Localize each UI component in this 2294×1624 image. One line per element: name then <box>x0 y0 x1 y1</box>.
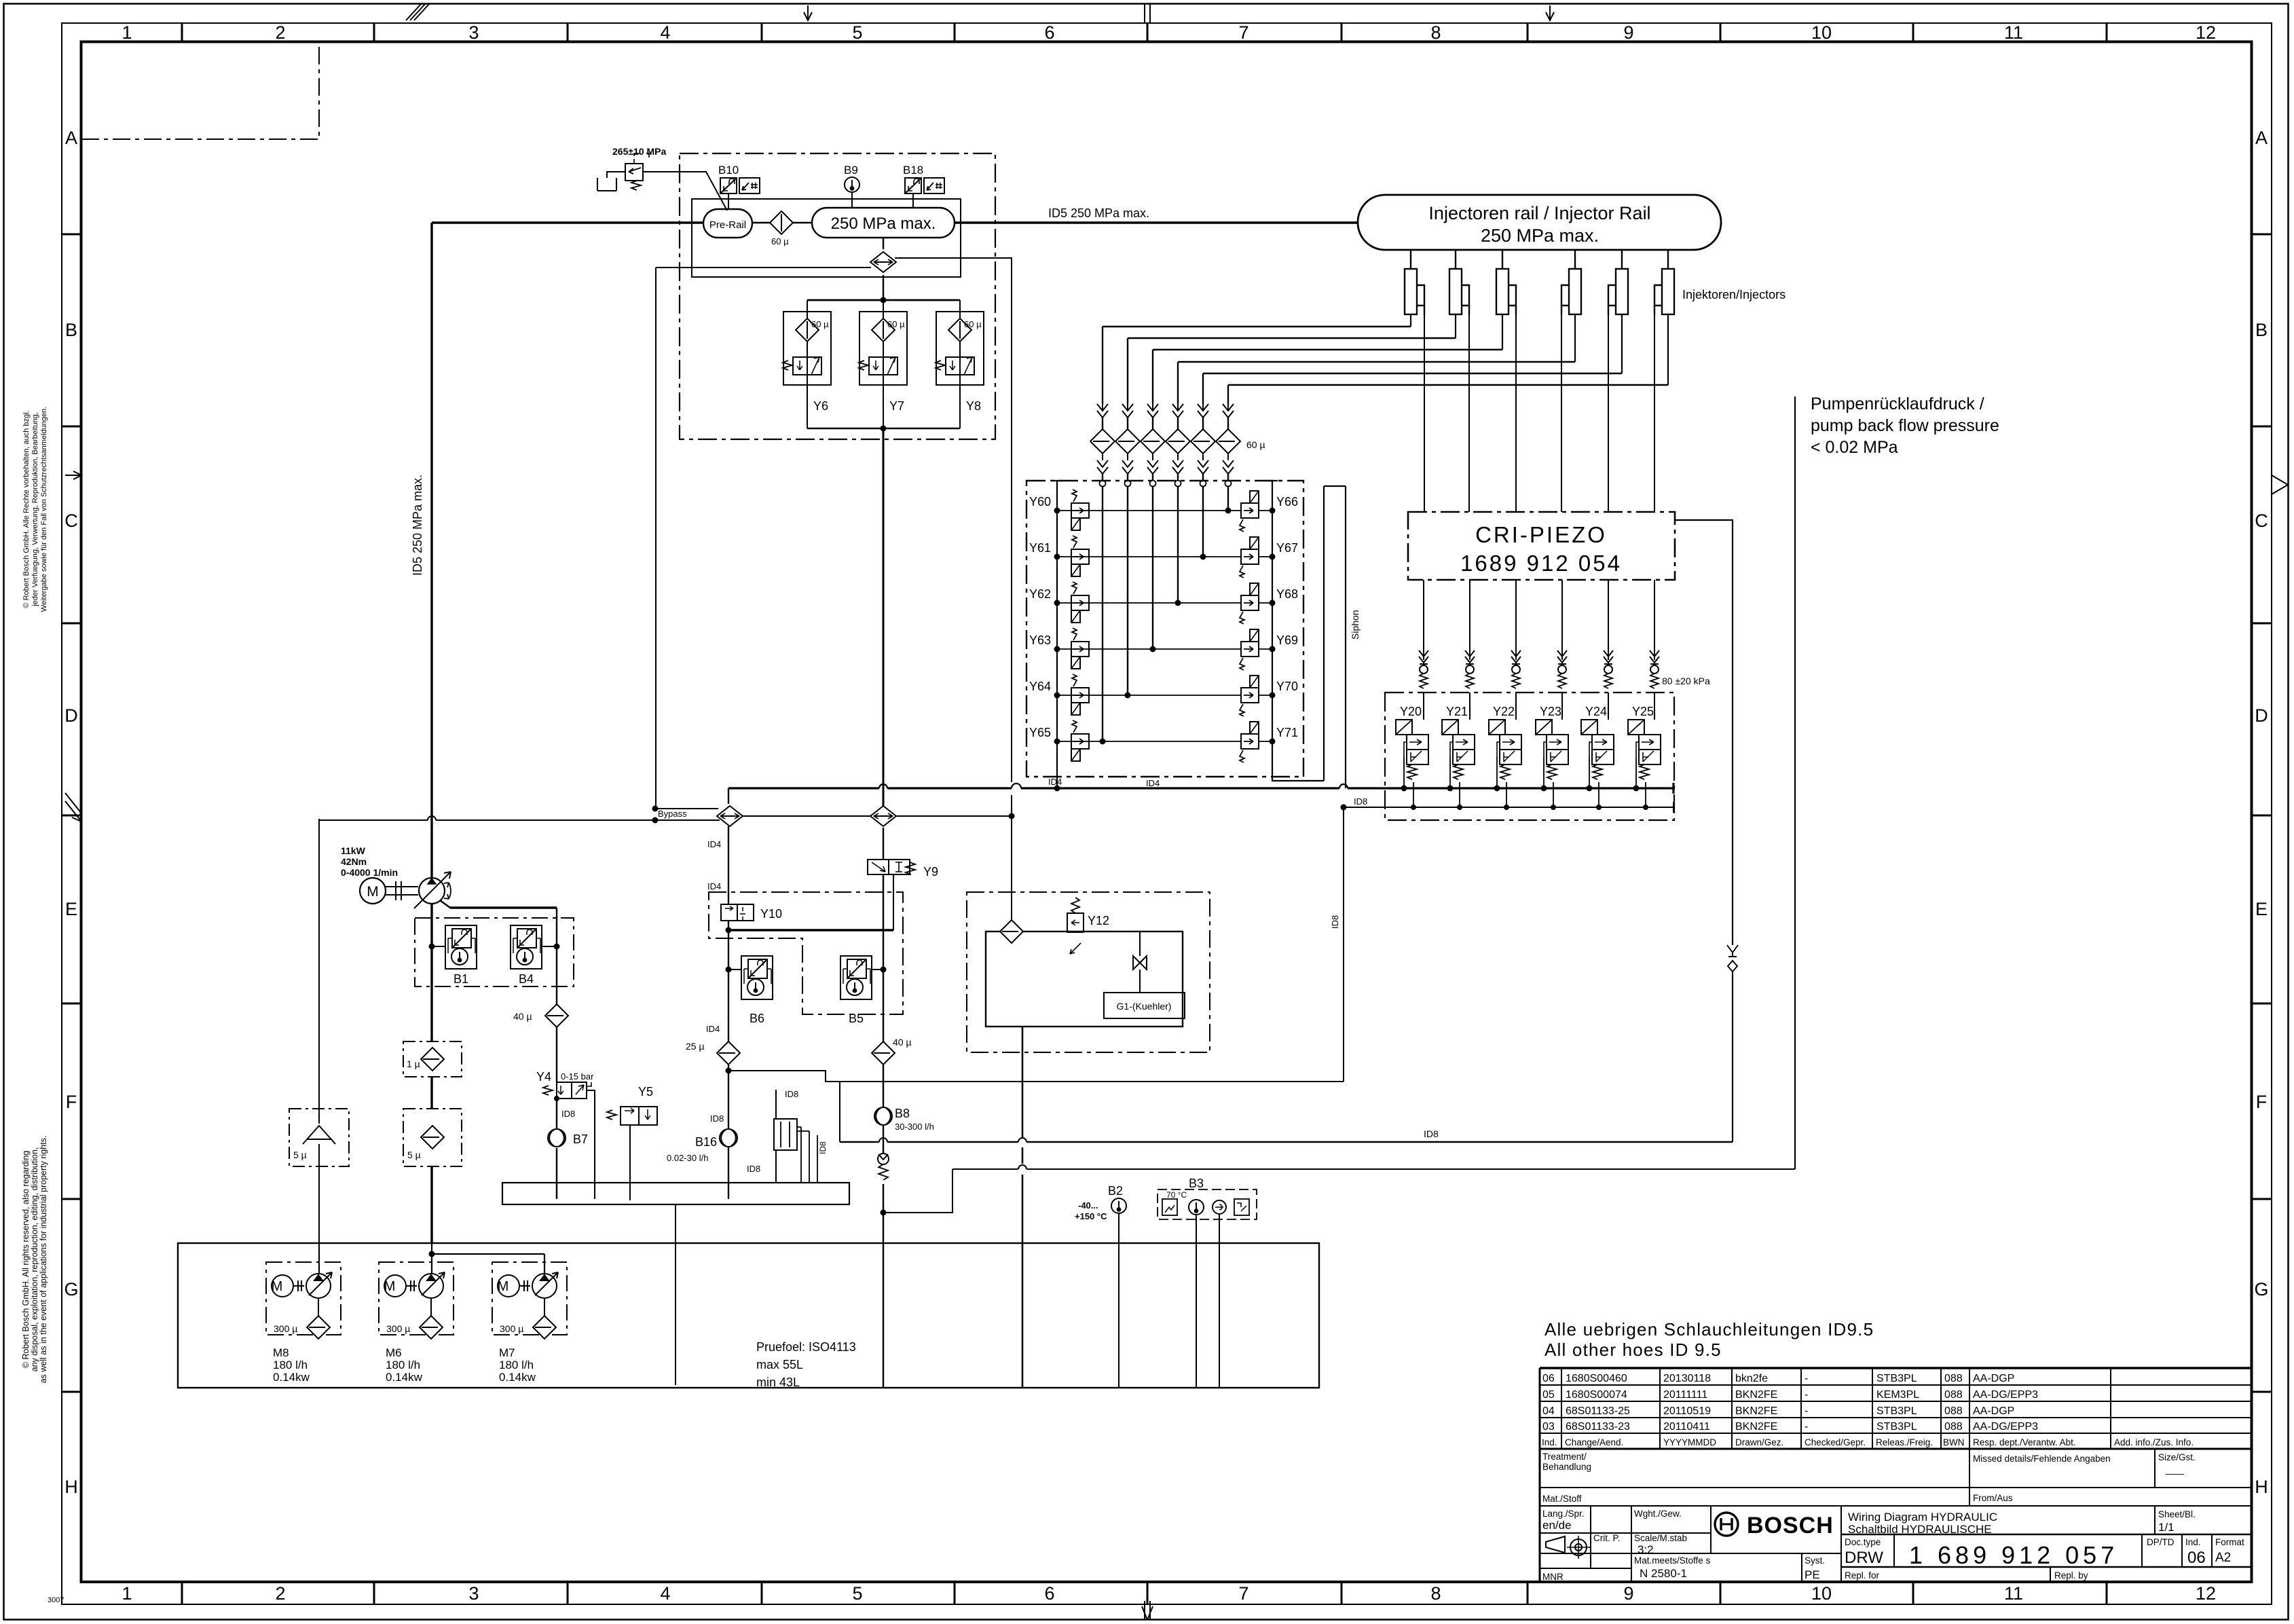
wire tank drain <box>675 1204 676 1385</box>
wire left bus of Y60 block <box>1052 481 1062 788</box>
svg-text:8: 8 <box>1430 22 1441 43</box>
svg-text:-: - <box>1805 1373 1808 1384</box>
injector 3 <box>1496 250 1516 315</box>
svg-text:ID8: ID8 <box>1354 796 1367 807</box>
wire Y7 column down <box>883 428 885 806</box>
svg-text:Pruefoel: ISO4113: Pruefoel: ISO4113 <box>756 1340 856 1354</box>
motor-pump M6 <box>384 1272 445 1298</box>
wire ID5 vertical <box>430 223 432 1243</box>
svg-text:Lang./Spr.: Lang./Spr. <box>1542 1509 1585 1519</box>
svg-text:Repl. by: Repl. by <box>2054 1570 2088 1581</box>
check+spring column no.2 <box>1465 650 1475 688</box>
svg-text:25 µ: 25 µ <box>686 1041 705 1052</box>
svg-text:300 µ: 300 µ <box>274 1323 297 1334</box>
svg-text:180 l/h: 180 l/h <box>273 1359 308 1371</box>
svg-text:Sheet/Bl.: Sheet/Bl. <box>2158 1509 2196 1519</box>
svg-text:Pre-Rail: Pre-Rail <box>709 219 746 231</box>
svg-text:60 µ: 60 µ <box>771 236 789 246</box>
wire pump outlet header <box>450 906 557 908</box>
1979 down line <box>1343 807 1344 1082</box>
injector rail node <box>1358 195 1721 250</box>
rail 250 MPa max node <box>812 208 955 238</box>
rail module dashed enclosure <box>680 153 995 439</box>
pressure relief valve 265±10 MPa <box>597 153 727 210</box>
svg-text:Y6: Y6 <box>813 399 828 413</box>
valve Y66 <box>1240 491 1259 532</box>
svg-text:jeder Verfuegung, Verwertung,: jeder Verfuegung, Verwertung, Reprodukti… <box>31 412 39 607</box>
svg-text:CRI-PIEZO: CRI-PIEZO <box>1475 522 1607 547</box>
filter column 60µ no.2 <box>1115 404 1140 489</box>
svg-text:Y23: Y23 <box>1540 705 1561 718</box>
svg-text:Y9: Y9 <box>923 865 938 879</box>
svg-text:5 µ: 5 µ <box>293 1149 307 1160</box>
svg-text:40 µ: 40 µ <box>513 1011 532 1022</box>
svg-text:Y21: Y21 <box>1446 705 1468 718</box>
svg-text:ID8: ID8 <box>1424 1128 1439 1139</box>
svg-text:——: —— <box>2166 1469 2185 1479</box>
check+spring column no.6 <box>1650 650 1659 688</box>
svg-text:Missed details/Fehlende Angabe: Missed details/Fehlende Angaben <box>1973 1454 2111 1464</box>
svg-text:Mat./Stoff: Mat./Stoff <box>1542 1494 1582 1504</box>
svg-text:20110519: 20110519 <box>1663 1405 1711 1417</box>
svg-text:4: 4 <box>660 22 670 43</box>
wire ID8 bus B left end <box>883 1169 952 1213</box>
svg-text:05: 05 <box>1542 1389 1555 1401</box>
heat exchanger <box>774 1119 797 1150</box>
verticals feeder to filter row <box>1103 327 1228 404</box>
svg-text:BKN2FE: BKN2FE <box>1735 1405 1777 1417</box>
wire Y6-Y8 supply header <box>807 297 960 303</box>
svg-text:YYYYMMDD: YYYYMMDD <box>1663 1437 1716 1447</box>
svg-text:Y66: Y66 <box>1276 495 1298 509</box>
svg-text:as well as in the event of app: as well as in the event of applications … <box>39 1136 48 1384</box>
svg-text:Ind.: Ind. <box>2185 1537 2201 1547</box>
svg-text:M8: M8 <box>273 1346 289 1359</box>
rail module inner box <box>692 199 961 277</box>
svg-text:68S01133-23: 68S01133-23 <box>1566 1421 1630 1433</box>
injector 1 <box>1405 250 1424 315</box>
svg-text:C: C <box>2255 511 2268 531</box>
svg-text:60 µ: 60 µ <box>964 319 982 329</box>
svg-text:9: 9 <box>1623 1583 1633 1604</box>
svg-text:3: 3 <box>468 22 479 43</box>
svg-text:-: - <box>1805 1389 1808 1401</box>
filter at G1 inlet <box>1000 920 1023 943</box>
sensor B1 <box>445 925 477 969</box>
svg-text:3:2: 3:2 <box>1638 1543 1654 1556</box>
injector 6 <box>1654 250 1674 315</box>
siphon tube <box>1324 486 1346 788</box>
wire G1 drain down <box>1022 1027 1024 1388</box>
svg-text:Repl. for: Repl. for <box>1845 1570 1880 1581</box>
valve Y24 <box>1581 720 1614 779</box>
svg-text:Wiring Diagram HYDRAULIC: Wiring Diagram HYDRAULIC <box>1848 1511 1997 1524</box>
svg-text:Ind.: Ind. <box>1542 1437 1557 1447</box>
check+spring column no.1 <box>1419 650 1428 688</box>
wire return line to siphon drain <box>726 1068 732 1074</box>
motor-pump M8 <box>272 1272 332 1298</box>
check valve with spring under B8 <box>878 1154 889 1164</box>
svg-text:-40...: -40... <box>1078 1200 1098 1211</box>
svg-text:A: A <box>2255 128 2268 148</box>
test bench tank room box <box>178 1243 1319 1388</box>
svg-text:5: 5 <box>852 1583 862 1604</box>
Y10/B5 dashed enclosure <box>709 892 903 1014</box>
Pre-Rail node <box>703 209 752 238</box>
svg-text:Y68: Y68 <box>1276 587 1298 601</box>
svg-text:Y62: Y62 <box>1029 587 1051 601</box>
svg-text:0-15 bar: 0-15 bar <box>561 1071 594 1082</box>
svg-text:Mat.meets/Stoffe s: Mat.meets/Stoffe s <box>1634 1555 1711 1566</box>
valve Y21 <box>1442 720 1475 779</box>
pump main variable <box>419 878 445 904</box>
svg-text:ID5 250 MPa max.: ID5 250 MPa max. <box>411 475 424 576</box>
svg-text:180 l/h: 180 l/h <box>386 1359 420 1371</box>
svg-text:Wght./Gew.: Wght./Gew. <box>1634 1509 1682 1519</box>
injector 5 <box>1608 250 1628 315</box>
G1-(Kuehler) label box <box>1104 993 1185 1018</box>
svg-text:Y65: Y65 <box>1029 726 1051 739</box>
svg-text:0.14kw: 0.14kw <box>386 1371 423 1384</box>
svg-text:60 µ: 60 µ <box>887 319 905 329</box>
svg-text:Syst.: Syst. <box>1805 1555 1825 1566</box>
copyright sideways text block 1 <box>21 407 48 1384</box>
wire B4 column down <box>556 908 557 1199</box>
svg-text:3: 3 <box>468 1583 479 1604</box>
label pump back flow pressure <box>1811 394 1999 457</box>
svg-text:60 µ: 60 µ <box>1246 439 1265 450</box>
valve Y20 <box>1396 720 1428 779</box>
svg-text:Y10: Y10 <box>760 907 782 921</box>
filter 25µ <box>717 1041 740 1065</box>
svg-text:STB3PL: STB3PL <box>1876 1421 1917 1433</box>
filter 40µ left <box>545 1004 568 1027</box>
svg-text:-: - <box>1805 1405 1808 1417</box>
svg-text:BOSCH: BOSCH <box>1747 1513 1834 1538</box>
svg-text:BKN2FE: BKN2FE <box>1735 1389 1777 1401</box>
motor M main drive <box>360 878 386 904</box>
wire rail module internal left <box>656 267 871 268</box>
label motor rating <box>341 845 398 878</box>
valve Y22 <box>1489 720 1521 779</box>
svg-text:03: 03 <box>1542 1421 1555 1433</box>
check valve under rail <box>883 238 884 300</box>
check valve bypass no.2 <box>870 806 896 826</box>
svg-text:1: 1 <box>122 22 132 43</box>
valve Y62 <box>1071 582 1089 623</box>
svg-text:20110411: 20110411 <box>1663 1421 1710 1433</box>
svg-text:AA-DG/EPP3: AA-DG/EPP3 <box>1973 1421 2038 1433</box>
svg-text:1 µ: 1 µ <box>407 1058 420 1069</box>
svg-text:N 2580-1: N 2580-1 <box>1640 1567 1687 1580</box>
svg-text:Siphon: Siphon <box>1350 610 1361 640</box>
svg-text:E: E <box>65 899 77 919</box>
svg-text:250 MPa max.: 250 MPa max. <box>831 215 936 233</box>
sensor B4 <box>511 925 542 969</box>
breather 5µ dashed box <box>289 1109 349 1166</box>
wire ID8 bus B <box>952 1168 1795 1170</box>
wires injectors to CRI-PIEZO <box>1424 315 1654 512</box>
wire ID8 bus <box>1344 802 1673 813</box>
svg-text:06: 06 <box>2187 1549 2206 1567</box>
svg-text:B4: B4 <box>519 972 534 986</box>
svg-text:B5: B5 <box>849 1012 864 1025</box>
svg-text:AA-DGP: AA-DGP <box>1973 1405 2014 1417</box>
svg-text:B3: B3 <box>1189 1177 1204 1190</box>
svg-text:B18: B18 <box>903 164 923 177</box>
svg-text:Releas./Freig.: Releas./Freig. <box>1876 1437 1933 1447</box>
wire Y6-Y8 drain header <box>807 428 960 429</box>
motor-pump M7 <box>498 1272 558 1298</box>
wires Y60-Y65 row lines <box>1057 511 1272 741</box>
wire ID4 column via Y10 <box>728 826 729 1199</box>
svg-text:any disposal, exploitation, re: any disposal, exploitation, reproduction… <box>30 1147 39 1372</box>
svg-text:© Robert Bosch GmbH. All right: © Robert Bosch GmbH. All rights reserved… <box>21 1151 31 1369</box>
svg-text:ID8: ID8 <box>818 1141 828 1154</box>
wires CRI-PIEZO leak-off columns <box>1424 580 1654 650</box>
svg-text:9: 9 <box>1623 22 1633 43</box>
svg-text:min 43L: min 43L <box>756 1376 800 1389</box>
svg-text:ID4: ID4 <box>1146 778 1160 788</box>
wire B6-B5 header <box>728 929 893 931</box>
svg-text:Y4: Y4 <box>536 1070 551 1084</box>
svg-text:Scale/M.stab: Scale/M.stab <box>1634 1533 1687 1543</box>
svg-text:68S01133-25: 68S01133-25 <box>1566 1405 1630 1417</box>
svg-text:ID8: ID8 <box>710 1113 724 1124</box>
svg-text:11: 11 <box>2004 1583 2023 1604</box>
svg-text:B9: B9 <box>844 164 858 177</box>
svg-text:42Nm: 42Nm <box>341 856 367 867</box>
svg-text:Size/Gst.: Size/Gst. <box>2158 1452 2196 1462</box>
svg-text:5 µ: 5 µ <box>407 1149 421 1160</box>
svg-text:Y7: Y7 <box>889 399 904 413</box>
svg-text:Y70: Y70 <box>1276 680 1298 693</box>
svg-text:Weitergabe sowie für den Fall: Weitergabe sowie für den Fall von Schutz… <box>40 407 48 612</box>
BOSCH logo <box>1715 1513 1834 1538</box>
svg-text:ID8: ID8 <box>747 1164 760 1174</box>
svg-text:B8: B8 <box>895 1107 910 1120</box>
Wiring diagram title <box>1848 1511 1997 1536</box>
svg-text:bkn2fe: bkn2fe <box>1735 1373 1768 1384</box>
drains to buses <box>1404 757 1646 807</box>
svg-text:A2: A2 <box>2215 1551 2231 1565</box>
svg-text:12: 12 <box>2196 22 2216 43</box>
svg-text:M: M <box>367 884 379 900</box>
wire CRI-PIEZO return with check valve <box>1675 520 1733 1142</box>
flow meter B7 <box>548 1129 566 1147</box>
svg-text:ID8: ID8 <box>561 1109 575 1119</box>
svg-text:1/1: 1/1 <box>2158 1521 2175 1534</box>
svg-text:1: 1 <box>122 1583 132 1604</box>
svg-text:D: D <box>64 705 78 726</box>
CRI-PIEZO unit box <box>1408 512 1675 580</box>
svg-text:20111111: 20111111 <box>1663 1389 1707 1401</box>
svg-text:A: A <box>65 128 77 148</box>
svg-text:Y67: Y67 <box>1276 541 1298 555</box>
svg-text:Doc.type: Doc.type <box>1845 1537 1881 1547</box>
svg-text:Add. info./Zus. Info.: Add. info./Zus. Info. <box>2114 1437 2194 1447</box>
svg-text:ID5 250 MPa max.: ID5 250 MPa max. <box>1048 206 1149 220</box>
svg-text:2: 2 <box>275 22 285 43</box>
svg-text:Crit. P.: Crit. P. <box>1593 1533 1621 1543</box>
valve Y67 <box>1240 537 1259 578</box>
svg-text:ID8: ID8 <box>785 1089 798 1099</box>
wire rail module to bypass vertical <box>895 258 1012 782</box>
svg-text:ID4: ID4 <box>707 881 721 891</box>
check valve bypass no.1 <box>717 806 743 826</box>
shutoff valve at G1 <box>1139 932 1141 993</box>
valve Y70 <box>1240 676 1259 716</box>
filter 300µ M7 <box>533 1316 556 1339</box>
wire ID4 main bus <box>728 783 1673 794</box>
valve Y60 <box>1071 490 1089 530</box>
G1 cooler inner box <box>986 931 1183 1027</box>
svg-text:G: G <box>64 1279 78 1299</box>
verticals continuing into block <box>1103 489 1228 741</box>
solenoid valves Y6 Y7 Y8 <box>783 357 974 375</box>
filter 5µ dashed box <box>403 1109 462 1166</box>
filter column 60µ no.5 <box>1191 404 1215 489</box>
sensor B6 <box>741 956 773 999</box>
svg-text:1680S00074: 1680S00074 <box>1566 1389 1627 1401</box>
svg-text:Y12: Y12 <box>1088 914 1109 927</box>
check+spring column no.3 <box>1511 650 1521 688</box>
svg-text:H: H <box>64 1477 78 1497</box>
filter column 60µ no.3 <box>1141 404 1165 489</box>
G1 cooler dashed enclosure <box>967 892 1210 1052</box>
sensor B5 <box>840 956 872 999</box>
injector 2 <box>1449 250 1469 315</box>
valve Y68 <box>1240 583 1259 624</box>
wire right bus of Y60 block <box>1267 481 1324 781</box>
svg-text:1680S00460: 1680S00460 <box>1566 1373 1627 1384</box>
svg-text:B: B <box>65 320 77 340</box>
svg-text:300 µ: 300 µ <box>500 1323 523 1334</box>
svg-text:12: 12 <box>2196 1583 2216 1604</box>
oil tank manifold <box>502 1183 849 1204</box>
svg-text:AA-DGP: AA-DGP <box>1973 1373 2014 1384</box>
valve Y64 <box>1071 674 1089 715</box>
svg-text:F: F <box>2256 1092 2268 1112</box>
svg-text:10: 10 <box>1811 22 1832 43</box>
svg-text:M: M <box>384 1279 396 1294</box>
svg-text:G1-(Kuehler): G1-(Kuehler) <box>1117 1001 1172 1012</box>
filter column 60µ no.4 <box>1166 404 1190 489</box>
svg-text:F: F <box>66 1092 77 1112</box>
svg-text:© Robert Bosch GmbH. Alle Rech: © Robert Bosch GmbH. Alle Rechte vorbeha… <box>22 410 31 608</box>
svg-text:PE: PE <box>1805 1568 1820 1581</box>
svg-text:Injektoren/Injectors: Injektoren/Injectors <box>1682 288 1786 301</box>
middle cells <box>1542 1452 2196 1504</box>
wires injector drops <box>1411 314 1668 385</box>
svg-text:20130118: 20130118 <box>1663 1373 1711 1384</box>
flow meter B8 <box>874 1107 892 1125</box>
svg-text:088: 088 <box>1944 1389 1963 1401</box>
svg-text:ID4: ID4 <box>706 1024 720 1034</box>
svg-text:Drawn/Gez.: Drawn/Gez. <box>1735 1437 1783 1447</box>
svg-text:E: E <box>2255 899 2268 919</box>
svg-text:G: G <box>2254 1279 2268 1299</box>
svg-text:B7: B7 <box>573 1132 588 1146</box>
valve Y61 <box>1071 536 1089 576</box>
filter 300µ M6 <box>420 1316 443 1339</box>
svg-text:300 µ: 300 µ <box>386 1323 410 1334</box>
note all other hoses ID9.5 <box>1544 1319 1874 1360</box>
check+spring column no.5 <box>1604 650 1613 688</box>
filter column 60µ no.1 <box>1090 404 1115 489</box>
svg-text:en/de: en/de <box>1542 1519 1572 1532</box>
svg-text:40 µ: 40 µ <box>893 1037 912 1048</box>
svg-text:0.02-30 l/h: 0.02-30 l/h <box>667 1153 708 1163</box>
svg-text:4: 4 <box>660 1583 670 1604</box>
check+spring column no.4 <box>1557 650 1567 688</box>
first-angle projection symbol <box>1546 1536 1590 1559</box>
svg-text:Resp. dept./Verantw. Abt.: Resp. dept./Verantw. Abt. <box>1973 1437 2076 1447</box>
svg-text:Injectoren rail / Injector Rai: Injectoren rail / Injector Rail <box>1428 203 1650 223</box>
svg-text:60 µ: 60 µ <box>811 319 829 329</box>
svg-text:KEM3PL: KEM3PL <box>1876 1389 1919 1401</box>
svg-text:DRW: DRW <box>1845 1549 1883 1567</box>
svg-text:250 MPa max.: 250 MPa max. <box>1481 225 1599 246</box>
Y20-Y25 block dashed enclosure <box>1385 693 1674 820</box>
svg-text:M: M <box>272 1279 283 1294</box>
svg-text:Pumpenrücklaufdruck /: Pumpenrücklaufdruck / <box>1811 394 1984 413</box>
svg-text:7: 7 <box>1238 22 1248 43</box>
valve Y71 <box>1240 722 1259 762</box>
svg-text:Y25: Y25 <box>1632 705 1654 718</box>
svg-text:H: H <box>2255 1477 2268 1497</box>
wire ID5 main line left <box>432 221 703 223</box>
svg-text:Y5: Y5 <box>638 1085 653 1099</box>
valve Y12 <box>1067 898 1084 954</box>
svg-text:ID4: ID4 <box>707 839 721 849</box>
svg-text:10: 10 <box>1811 1583 1832 1604</box>
valve group boxes Y6 Y7 Y8 <box>783 312 984 385</box>
wire ID8 bus A riser <box>839 1082 840 1142</box>
labels <box>1029 495 1298 739</box>
svg-text:From/Aus: From/Aus <box>1973 1493 2013 1503</box>
svg-text:80 ±20 kPa: 80 ±20 kPa <box>1662 676 1710 686</box>
motor-pump unit enclosures M8 M6 M7 <box>266 1262 567 1335</box>
svg-text:All other hoes ID 9.5: All other hoes ID 9.5 <box>1544 1340 1722 1360</box>
valve Y9 <box>883 828 884 930</box>
svg-text:2: 2 <box>275 1583 285 1604</box>
svg-text:6: 6 <box>1044 1583 1054 1604</box>
svg-text:1689 912 054: 1689 912 054 <box>1460 551 1622 576</box>
valve Y63 <box>1071 628 1089 669</box>
svg-text:B1: B1 <box>454 972 468 986</box>
svg-text:M7: M7 <box>499 1346 515 1359</box>
svg-text:Alle uebrigen Schlauchleitunge: Alle uebrigen Schlauchleitungen ID9.5 <box>1544 1319 1874 1340</box>
svg-text:B10: B10 <box>718 164 739 177</box>
svg-text:30-300 l/h: 30-300 l/h <box>895 1122 934 1132</box>
svg-text:Y20: Y20 <box>1400 705 1422 718</box>
wire B5 column down <box>883 930 884 1388</box>
svg-text:ID4: ID4 <box>1048 777 1062 787</box>
revision table rows <box>1542 1373 2038 1433</box>
svg-text:Y69: Y69 <box>1276 633 1298 647</box>
svg-text:Treatment/: Treatment/ <box>1542 1452 1587 1462</box>
svg-text:0.14kw: 0.14kw <box>273 1371 310 1384</box>
filter 1µ dashed box <box>403 1041 462 1077</box>
svg-text:Schaltbild HYDRAULISCHE: Schaltbild HYDRAULISCHE <box>1848 1523 1992 1536</box>
svg-text:ID8: ID8 <box>1330 915 1340 929</box>
svg-text:088: 088 <box>1944 1373 1963 1384</box>
svg-text:0-4000 1/min: 0-4000 1/min <box>341 867 398 878</box>
svg-text:Y60: Y60 <box>1029 495 1051 509</box>
wire pump back flow vertical <box>1794 396 1796 1169</box>
valve Y25 <box>1628 720 1661 779</box>
